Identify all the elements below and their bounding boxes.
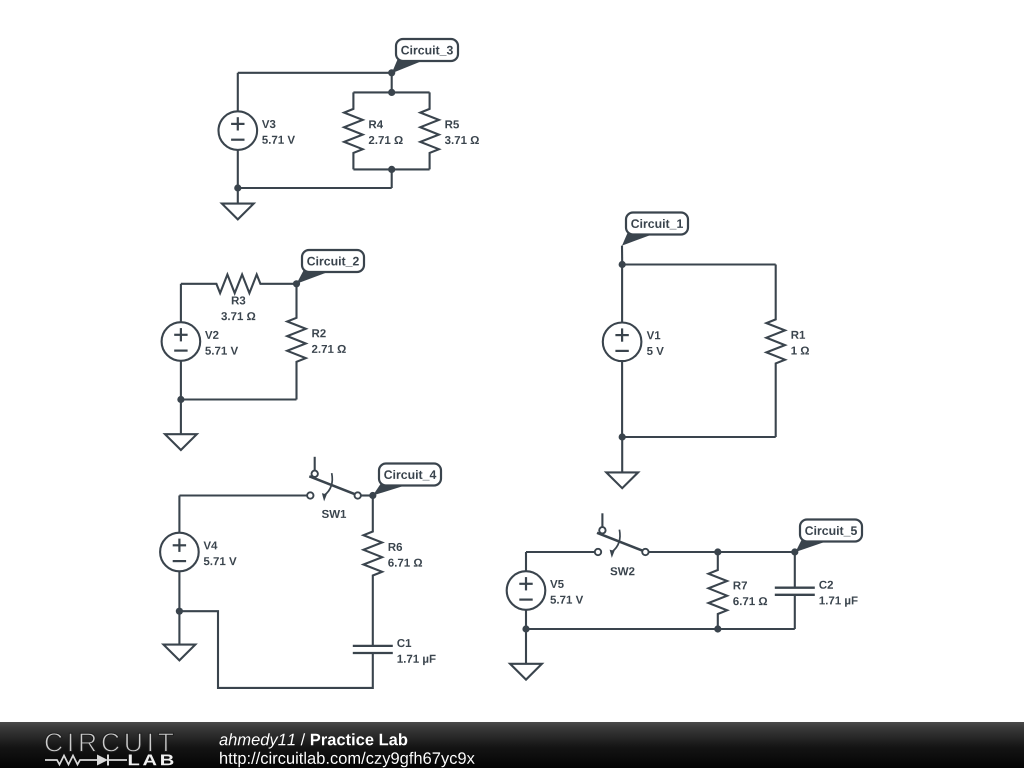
footer url: [220, 752, 475, 767]
label V4 value: [204, 542, 218, 550]
capacitor C1: [353, 645, 393, 647]
node Circuit_1 top: [619, 261, 626, 268]
label C1 value: [397, 639, 411, 647]
wire callout tail to node: [621, 246, 623, 265]
wire parallel bottom rail: [353, 168, 429, 170]
wire switch to C2 top: [649, 551, 795, 553]
wire bottom Circuit_1: [622, 436, 776, 438]
node C2 top: [791, 548, 798, 555]
label R7 value: [734, 582, 747, 590]
resistor R7: [709, 552, 728, 629]
wire C2 top lead: [794, 552, 796, 588]
label SW2: [610, 567, 634, 575]
node Circuit_4: [369, 492, 376, 499]
label V2 value: [205, 331, 219, 339]
label SW1: [322, 510, 346, 518]
capacitor C2: [775, 587, 815, 589]
wire parallel top rail: [353, 91, 429, 93]
callout Circuit_1: [622, 233, 652, 246]
ground Circuit_5: [525, 629, 527, 664]
node parallel bottom: [388, 166, 395, 173]
label C2 value: [819, 581, 833, 589]
voltage source V4: [178, 496, 180, 533]
node Circuit_3 top: [388, 69, 395, 76]
node Circuit_2: [293, 280, 300, 287]
wire bottom Circuit_2: [181, 398, 297, 400]
wire C2 bottom lead: [794, 595, 796, 629]
wire bottom Circuit_3: [238, 187, 392, 189]
node V2 bottom: [177, 396, 184, 403]
node V1 bottom: [619, 433, 626, 440]
node R7 top: [714, 548, 721, 555]
resistor R2: [287, 284, 306, 400]
callout Circuit_5: [796, 540, 827, 552]
label R6 value: [389, 543, 403, 551]
switch SW1: [314, 457, 316, 471]
ground Circuit_3: [237, 188, 239, 204]
callout Circuit_3: [392, 60, 422, 74]
node V3 bottom: [234, 184, 241, 191]
label R2 value: [312, 329, 325, 337]
resistor R1: [766, 265, 785, 438]
label V1 value: [647, 331, 661, 339]
voltage source V5: [525, 552, 527, 571]
logo diode symbol: [97, 755, 108, 766]
switch SW2: [601, 513, 603, 527]
wire top rail Circuit_3: [238, 72, 392, 74]
footer author / title: [219, 733, 407, 748]
logo LAB text: [129, 755, 174, 766]
wire top Circuit_1: [622, 263, 776, 265]
callout Circuit_2: [297, 271, 329, 284]
label R4 value: [369, 120, 383, 128]
ground Circuit_4: [178, 611, 180, 644]
logo resistor symbol: [45, 756, 97, 765]
ground Circuit_2: [180, 400, 182, 435]
wire node to parallel rail: [391, 73, 393, 93]
wire rail to bottom: [391, 169, 393, 188]
node parallel top: [388, 89, 395, 96]
resistor R3 with top wire: [181, 275, 297, 294]
callout Circuit_4: [373, 484, 405, 496]
label V3 value: [262, 120, 276, 128]
node V4 bottom: [176, 608, 183, 615]
label R1 value: [792, 331, 806, 339]
wire top left Circuit_5: [526, 551, 595, 553]
resistor R6: [364, 496, 383, 646]
voltage source V3: [237, 73, 239, 112]
resistor R4: [344, 92, 363, 169]
wire switch to node: [361, 494, 373, 496]
resistor R5: [420, 92, 439, 169]
label R5 value: [445, 120, 459, 128]
logo CIRCUIT text: [45, 733, 173, 752]
wire top left Circuit_4: [179, 494, 307, 496]
wire C1 to V4 bottom: [179, 611, 372, 688]
label V5 value: [550, 580, 564, 588]
wire bottom Circuit_5: [526, 628, 795, 630]
label R3 value: [232, 296, 246, 304]
node V5 bottom: [522, 625, 529, 632]
voltage source V2: [180, 284, 182, 322]
node R7 bottom: [714, 625, 721, 632]
ground Circuit_1: [621, 437, 623, 472]
voltage source V1: [621, 265, 623, 323]
